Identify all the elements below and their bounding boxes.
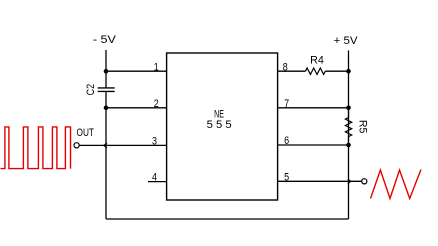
wire pin3 <box>79 144 166 146</box>
svg-text:5 5 5: 5 5 5 <box>207 119 232 131</box>
junction dot pin6/rail <box>346 143 351 148</box>
resistor R4 <box>306 68 326 74</box>
junction tick pin5/rail <box>348 179 351 183</box>
svg-text:3: 3 <box>152 136 157 148</box>
wire R4 to rail <box>325 70 348 72</box>
svg-text:+ 5V: + 5V <box>334 35 359 47</box>
svg-text:- 5V: - 5V <box>93 34 117 46</box>
wire pin2 <box>106 107 167 109</box>
waveform triangle (red) <box>371 170 422 199</box>
junction tick pin3/rail <box>104 143 107 148</box>
svg-text:2: 2 <box>154 98 159 110</box>
junction dot pin2/rail <box>104 106 109 111</box>
svg-text:4: 4 <box>152 171 157 183</box>
resistor R5 <box>345 110 351 142</box>
wire pin6 <box>278 144 349 146</box>
wire pin7 <box>278 107 349 109</box>
svg-text:OUT: OUT <box>77 127 95 139</box>
terminal OUT <box>74 143 79 148</box>
svg-text:C2: C2 <box>85 84 97 96</box>
svg-text:1: 1 <box>154 61 159 73</box>
wire pin1 <box>106 70 167 72</box>
junction dot pin1/rail <box>104 69 109 74</box>
bottom wire <box>106 218 349 220</box>
right rail wire <box>348 51 350 220</box>
svg-text:R5: R5 <box>357 120 369 133</box>
svg-text:R4: R4 <box>310 55 324 67</box>
wire pin4 stub <box>148 181 167 183</box>
terminal output pin5 <box>362 179 367 184</box>
wire pin8 to R4 <box>278 70 306 72</box>
IC U1 NE555 <box>167 53 278 200</box>
junction dot R4/rail <box>346 69 351 74</box>
capacitor C2 <box>98 88 115 92</box>
wire pin5 <box>278 180 362 182</box>
left rail wire <box>105 50 107 219</box>
junction dot pin7/rail <box>346 106 351 111</box>
waveform square OUT (red) <box>1 127 71 169</box>
